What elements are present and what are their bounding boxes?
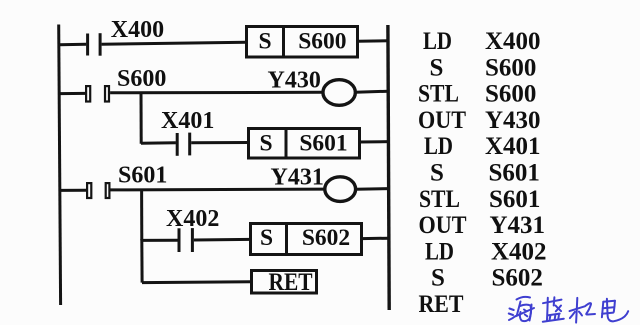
svg-text:S600: S600 <box>117 66 166 92</box>
wire contact X401 to S-box <box>191 141 248 144</box>
wire S-box to right rail <box>362 237 390 240</box>
instruction line 3: STL S600 <box>418 81 536 108</box>
svg-text:S: S <box>430 54 444 81</box>
wire branch to RET box <box>142 280 251 284</box>
wire rung2: coil Y430 to right rail <box>355 91 388 92</box>
set-coil box S S600 <box>247 27 358 58</box>
svg-text:LD: LD <box>424 133 453 160</box>
left power rail <box>59 25 61 306</box>
instruction line 8: OUT Y431 <box>419 212 546 239</box>
contact X401 (normally open) <box>177 133 190 156</box>
contact X402 (normally open) <box>179 228 192 252</box>
instruction line 5: LD X401 <box>424 133 541 160</box>
coil Y430 <box>323 80 355 106</box>
instruction line 6: S S601 <box>430 160 540 187</box>
svg-text:X402: X402 <box>491 238 547 265</box>
watermark dian (blue handwriting) <box>602 299 628 322</box>
svg-text:S602: S602 <box>302 225 350 251</box>
wire rung1: contact X400 to S-box <box>102 42 247 44</box>
wire S-box to right rail <box>360 140 389 143</box>
STL step contact S601 <box>87 183 109 198</box>
svg-text:S: S <box>259 130 272 156</box>
svg-text:S600: S600 <box>298 29 346 55</box>
wire contact X402 to S-box <box>194 238 251 242</box>
svg-text:STL: STL <box>418 81 459 108</box>
svg-text:S601: S601 <box>489 160 540 187</box>
contact X400 (normally open) <box>88 33 101 56</box>
instruction line 7: STL S601 <box>419 186 540 213</box>
wire rung3: rail to STL contact <box>60 189 87 192</box>
svg-text:Y431: Y431 <box>490 212 546 239</box>
svg-text:S600: S600 <box>485 81 536 108</box>
watermark ji (blue handwriting) <box>570 298 596 323</box>
set-coil box S S601 <box>249 129 360 159</box>
wire branch to contact X402 <box>142 239 178 242</box>
svg-text:S601: S601 <box>489 186 540 213</box>
set-coil box S S602 <box>251 224 362 255</box>
svg-text:RET: RET <box>269 269 313 296</box>
svg-text:S601: S601 <box>118 162 167 188</box>
wire rung3: coil Y431 to right rail <box>356 187 389 191</box>
svg-text:Y430: Y430 <box>268 68 321 94</box>
watermark lan (blue handwriting) <box>543 297 564 321</box>
wire branch from rung2 down <box>140 92 143 144</box>
wire branch to contact X401 <box>141 141 176 144</box>
wire branch from rung3 down <box>140 189 143 241</box>
svg-text:OUT: OUT <box>418 107 466 134</box>
svg-text:S602: S602 <box>492 265 543 292</box>
svg-text:Y431: Y431 <box>271 164 324 190</box>
svg-text:S: S <box>260 225 273 251</box>
instruction line 2: S S600 <box>430 54 537 81</box>
svg-text:S: S <box>431 265 445 292</box>
svg-text:STL: STL <box>419 186 460 213</box>
svg-text:X400: X400 <box>485 28 541 55</box>
right power rail <box>388 25 389 310</box>
wire branch down to RET <box>140 239 143 283</box>
svg-text:X402: X402 <box>166 206 219 232</box>
svg-text:S: S <box>430 160 444 187</box>
svg-text:S600: S600 <box>485 54 536 81</box>
instruction line 10: S S602 <box>431 265 543 292</box>
wire rung3: STL contact to coil Y431 <box>111 188 325 192</box>
wire rung2: STL contact to coil Y430 <box>110 91 323 95</box>
svg-text:Y430: Y430 <box>485 107 541 134</box>
svg-text:LD: LD <box>425 238 454 265</box>
watermark hai (blue handwriting) <box>509 297 534 321</box>
svg-text:X400: X400 <box>111 17 164 43</box>
coil Y431 <box>325 177 356 202</box>
wire rung1: S-box to right rail <box>358 39 389 42</box>
svg-text:OUT: OUT <box>419 212 467 239</box>
STL step contact S600 <box>86 86 109 101</box>
svg-text:X401: X401 <box>485 133 541 160</box>
instruction line 9: LD X402 <box>425 238 547 265</box>
svg-text:S: S <box>258 29 271 55</box>
svg-text:S601: S601 <box>299 130 347 156</box>
svg-text:RET: RET <box>419 291 464 318</box>
return box RET <box>252 269 317 296</box>
instruction line 4: OUT Y430 <box>418 107 541 134</box>
instruction line 1: LD X400 <box>423 28 541 55</box>
svg-text:X401: X401 <box>161 108 214 134</box>
wire rung1: rail to contact X400 <box>59 43 86 46</box>
wire rung2: rail to STL contact <box>60 92 86 95</box>
svg-text:LD: LD <box>423 28 452 55</box>
